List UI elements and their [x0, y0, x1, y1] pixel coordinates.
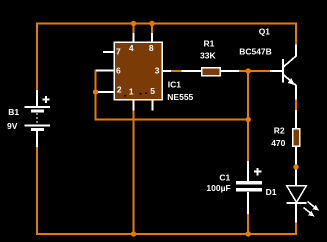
svg-text:1: 1 [129, 86, 134, 96]
wire pin4 to top rail [133, 23, 135, 34]
wire R1 to base junction [239, 70, 271, 72]
junction dot C1/bottom rail [246, 231, 251, 236]
resistor R1 [182, 68, 240, 76]
junction dot pin4/top rail [131, 21, 136, 26]
junction dot pin2 node [93, 89, 98, 94]
svg-text:C1: C1 [219, 173, 230, 183]
wire C1 to bottom rail [247, 213, 249, 235]
wire pin6/pin2 vertical [96, 71, 249, 120]
junction dot R2/LED node [293, 164, 298, 169]
transistor Q1 emitter arrowhead [288, 78, 295, 85]
svg-text:100µF: 100µF [206, 183, 230, 193]
pin 6 lead [96, 70, 115, 72]
wire LED to bottom rail [295, 222, 297, 234]
wire top rail [36, 23, 297, 25]
svg-text:4: 4 [129, 43, 134, 53]
junction dot C1 top node [246, 117, 251, 122]
svg-text:D1: D1 [266, 187, 277, 197]
wire pin3 to R1 [171, 70, 183, 72]
capacitor C1 plus sign [254, 168, 262, 176]
wire right vertical to collector [295, 23, 297, 45]
svg-text:7: 7 [116, 46, 121, 56]
svg-text:3: 3 [155, 65, 160, 75]
wire junction down to C1 [247, 71, 249, 162]
battery plus sign [43, 96, 50, 103]
LED D1 emission arrow 1 [308, 202, 316, 209]
wire bottom rail [36, 233, 297, 235]
transistor Q1 [270, 45, 296, 100]
wire pin8 to top rail [151, 23, 153, 34]
svg-text:B1: B1 [8, 107, 19, 117]
wire left vertical from top rail to battery [36, 23, 38, 91]
svg-text:9V: 9V [7, 121, 18, 131]
pin 3 lead [163, 70, 172, 72]
LED D1 [287, 166, 307, 223]
wire pin1 vertical to bottom rail [133, 110, 135, 235]
resistor R2 [293, 110, 300, 167]
svg-text:BC547B: BC547B [239, 46, 272, 56]
pin 2 lead [96, 91, 115, 93]
wire left vertical battery to bottom rail [36, 147, 38, 234]
IC IC1 NE555 body [114, 42, 162, 100]
capacitor C1 [236, 161, 262, 214]
svg-text:33K: 33K [200, 51, 216, 61]
junction dot pin1/bottom rail [131, 231, 136, 236]
junction dot pin8/top rail [149, 21, 154, 26]
pin 8 lead [151, 33, 153, 42]
svg-text:R1: R1 [204, 38, 215, 48]
svg-text:IC1: IC1 [168, 80, 182, 90]
LED D1 emission arrow 2 [304, 208, 312, 214]
battery B1 symbol [25, 90, 51, 147]
svg-text:5: 5 [150, 86, 155, 96]
svg-text:6: 6 [116, 65, 121, 75]
svg-text:2: 2 [117, 85, 122, 95]
pin 4 lead [133, 33, 135, 42]
wire emitter to R2 [295, 99, 297, 111]
pin marker dots [124, 93, 147, 97]
svg-text:Q1: Q1 [259, 26, 271, 36]
svg-text:8: 8 [149, 43, 154, 53]
pin 7 lead [103, 51, 115, 53]
junction dot R1/base/C1 node [246, 68, 251, 73]
svg-text:NE555: NE555 [167, 92, 193, 102]
pin 1 lead [133, 100, 135, 111]
pin 5 lead [151, 100, 153, 111]
svg-text:470: 470 [271, 138, 285, 148]
svg-text:R2: R2 [274, 126, 285, 136]
